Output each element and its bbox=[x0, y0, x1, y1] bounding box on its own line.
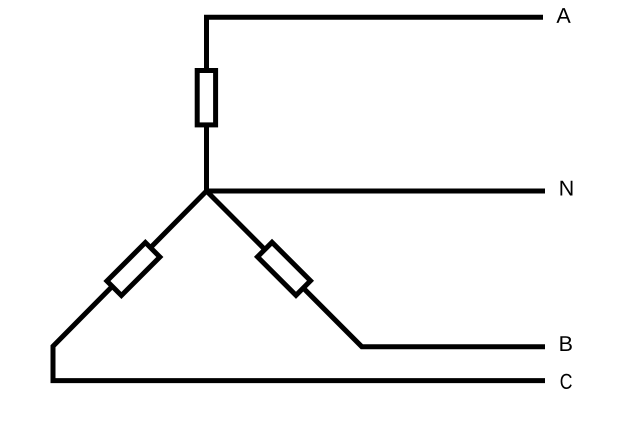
wire: left branch from wye node down to corner, then phase C lead bbox=[53, 191, 545, 381]
wire: right branch from wye node down to corner, then phase B lead bbox=[207, 191, 546, 347]
wire: neutral N horizontal lead from wye node bbox=[207, 189, 546, 194]
node B (terminal label) bbox=[560, 336, 571, 351]
node A (terminal label) bbox=[556, 8, 570, 23]
wire: phase A horizontal lead and vertical branch down to wye node bbox=[207, 17, 544, 191]
resistor R1 (phase A branch) bbox=[197, 71, 215, 125]
resistor R3 (left branch, phase C) bbox=[107, 243, 160, 296]
node N (terminal label) bbox=[560, 181, 572, 196]
node C (terminal label) bbox=[561, 374, 572, 389]
resistor R2 (right branch, phase B) bbox=[258, 242, 311, 295]
